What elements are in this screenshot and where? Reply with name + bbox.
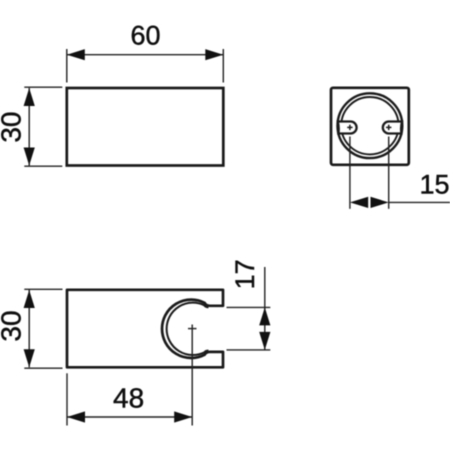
dimension 17: extension lines — [227, 307, 271, 350]
dimension 30 (top view): dimension line with arrows — [24, 290, 35, 367]
side view: inner circle of holder ring — [341, 97, 398, 154]
side view: left mounting slot — [338, 122, 357, 134]
top view: inner arc of holder cutout — [167, 303, 209, 355]
dimension 60: extension lines — [67, 49, 224, 83]
svg-text:15: 15 — [420, 169, 450, 199]
dimension 15: extension lines — [350, 137, 389, 209]
svg-text:30: 30 — [0, 112, 27, 143]
dimension 15: value label — [420, 169, 450, 199]
svg-text:17: 17 — [230, 259, 260, 289]
dimension 17: dimension line with inward arrows — [259, 267, 270, 350]
dimension 30 (front view): dimension line with arrows — [24, 88, 35, 166]
dimension 30 (front view): extension lines — [24, 87, 62, 166]
side view: right slot centre cross — [386, 125, 391, 130]
dimension 30 (front view): value label — [0, 112, 27, 143]
dimension 48: extension lines — [67, 325, 192, 426]
top view: cutout centre cross — [188, 328, 197, 330]
svg-text:60: 60 — [130, 21, 160, 51]
svg-text:30: 30 — [0, 310, 27, 341]
top view body outline with holder cutout — [67, 290, 223, 368]
side view body outline (square 30x30) — [331, 88, 409, 165]
dimension 60: dimension line with arrows — [67, 49, 224, 60]
side view: right mounting slot — [383, 122, 402, 134]
svg-text:48: 48 — [113, 382, 144, 413]
dimension 30 (top view): extension lines — [24, 289, 62, 368]
dimension 17: value label — [230, 259, 260, 289]
side view: outer circle of holder ring — [338, 93, 403, 158]
front view body outline (60x30 rectangle) — [67, 88, 224, 166]
dimension 48: value label — [113, 382, 144, 413]
dimension 48: dimension line with arrows — [67, 411, 192, 422]
dimension 30 (top view): value label — [0, 310, 27, 341]
dimension 60: value label — [130, 21, 160, 51]
side view: left slot centre cross — [347, 125, 352, 130]
dimension 15: dimension line with outward arrows — [350, 197, 450, 208]
